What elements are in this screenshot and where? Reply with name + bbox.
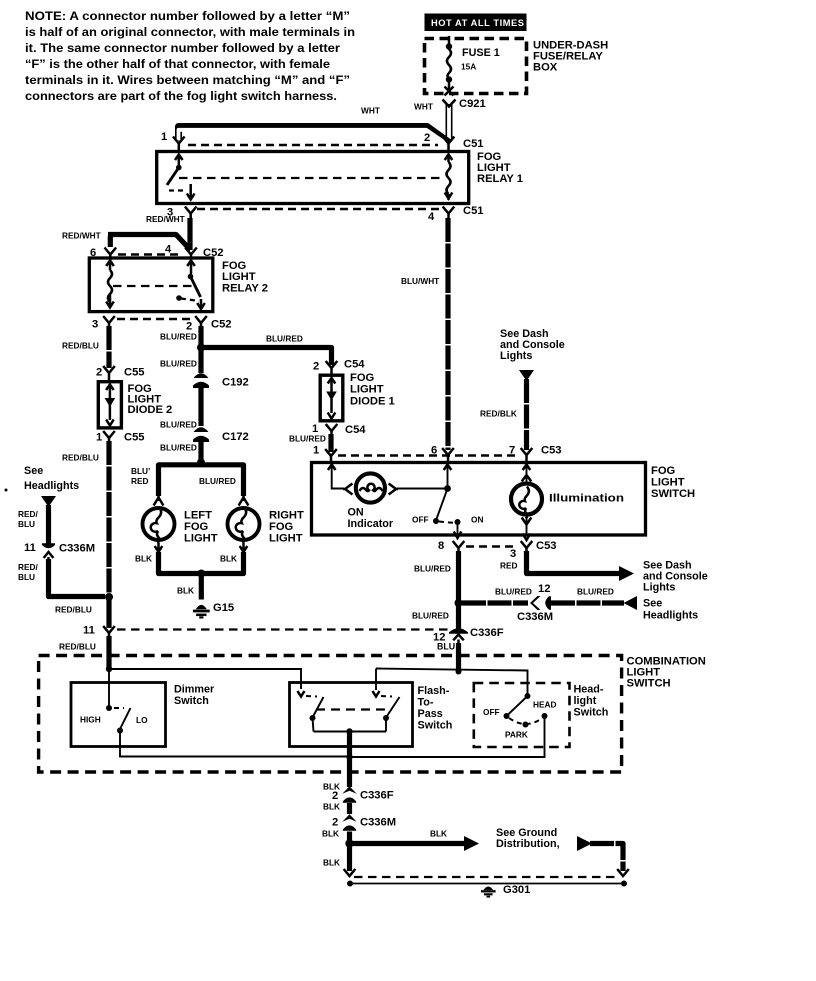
relay K1 coil — [445, 155, 453, 201]
node J9 12BLU tap — [456, 669, 462, 675]
wire RED/BLU from see headlights — [18, 505, 49, 544]
switch S1 blade OFF/ON — [412, 489, 483, 539]
svg-text:2: 2 — [424, 132, 430, 144]
wire BLK C336M-2 to ground node — [322, 829, 350, 843]
right fog light E2 — [228, 507, 304, 545]
svg-text:NOTE: A connector number follo: NOTE: A connector number followed by a l… — [25, 9, 350, 23]
svg-text:LEFT: LEFT — [184, 510, 212, 522]
diode D2 box — [98, 382, 172, 428]
diode D2 symbol — [105, 385, 116, 426]
svg-text:RELAY 2: RELAY 2 — [222, 283, 268, 295]
svg-text:BLK: BLK — [177, 586, 194, 596]
svg-text:See: See — [643, 598, 662, 610]
svg-text:BLU/WHT: BLU/WHT — [401, 276, 439, 286]
connector C52 pin 2 — [186, 316, 232, 333]
combination light switch box — [39, 656, 706, 773]
svg-text:WHT: WHT — [361, 106, 380, 116]
flash-to-pass left pole — [298, 691, 324, 732]
svg-text:C51: C51 — [463, 205, 484, 217]
relay K2 middle dashed link — [113, 285, 193, 287]
wire flash-to-pass feed line — [376, 669, 528, 695]
wire RED/WHT relay1 pin3 down — [187, 218, 192, 250]
wire WHT from C921 down — [446, 104, 453, 140]
connector line C51 top — [188, 144, 438, 147]
connector C336M pin 2 — [332, 814, 396, 831]
svg-text:BLU/RED: BLU/RED — [199, 476, 236, 486]
svg-text:2: 2 — [332, 817, 338, 829]
svg-text:Pass: Pass — [418, 708, 443, 720]
svg-text:DIODE 2: DIODE 2 — [128, 404, 173, 416]
svg-text:To-: To- — [418, 697, 434, 709]
fuse F1 15A — [445, 36, 500, 96]
svg-text:FOG: FOG — [350, 372, 375, 384]
svg-text:C52: C52 — [211, 319, 232, 331]
svg-text:Lights: Lights — [643, 582, 675, 594]
svg-text:LIGHT: LIGHT — [222, 271, 256, 283]
see dash and console lights (top) off-page arrow — [500, 328, 565, 381]
svg-text:G301: G301 — [503, 884, 530, 896]
svg-text:BLU/RED: BLU/RED — [160, 359, 197, 369]
svg-text:2: 2 — [96, 367, 102, 379]
svg-text:BLU: BLU — [18, 519, 35, 529]
connector line C53 bottom — [466, 545, 518, 548]
ground bus G301 — [347, 881, 627, 887]
svg-text:HOT AT ALL TIMES: HOT AT ALL TIMES — [431, 18, 525, 28]
svg-text:BLU/RED: BLU/RED — [412, 611, 449, 621]
relay K1 box — [157, 151, 523, 204]
svg-text:BLU’: BLU’ — [131, 466, 150, 476]
svg-text:2: 2 — [332, 790, 338, 802]
svg-text:BLU/RED: BLU/RED — [495, 587, 532, 597]
svg-text:BLK: BLK — [135, 554, 152, 564]
svg-text:is half of an original connect: is half of an original connector, with m… — [25, 25, 355, 39]
svg-text:RED: RED — [131, 476, 149, 486]
svg-text:BLU/RED: BLU/RED — [160, 332, 197, 342]
svg-text:G15: G15 — [213, 602, 234, 614]
svg-text:15A: 15A — [461, 62, 476, 72]
node J1 — [197, 344, 205, 352]
svg-text:C336M: C336M — [517, 611, 553, 623]
under-dash fuse/relay box — [425, 39, 609, 94]
diode D1 symbol — [326, 378, 337, 419]
svg-text:Switch: Switch — [418, 720, 453, 732]
headlight switch contacts — [483, 693, 557, 740]
svg-text:HEAD: HEAD — [533, 700, 557, 710]
svg-text:OFF: OFF — [483, 707, 500, 717]
svg-text:BLU/RED: BLU/RED — [160, 420, 197, 430]
svg-text:Distribution,: Distribution, — [496, 838, 560, 850]
wire RED/BLU C336M pin11 down — [18, 559, 105, 597]
svg-text:C54: C54 — [345, 424, 366, 436]
wire BLU/RED branch to C54 — [204, 334, 332, 366]
svg-text:LIGHT: LIGHT — [350, 384, 384, 396]
svg-text:2: 2 — [313, 361, 319, 373]
svg-text:BLU: BLU — [18, 572, 35, 582]
svg-text:C336M: C336M — [360, 817, 396, 829]
svg-text:RED/BLU: RED/BLU — [55, 605, 92, 615]
flash-to-pass common bar — [314, 731, 387, 733]
connector C53 pin 3 — [510, 540, 557, 560]
fog light switch S1 box — [312, 463, 696, 536]
left fog light E1 — [143, 507, 218, 545]
wire RED/BLU pin 11 into switch — [59, 636, 109, 668]
svg-text:C172: C172 — [222, 431, 249, 443]
switch S1 pin6 lead — [444, 465, 452, 489]
svg-text:BLK: BLK — [322, 829, 339, 839]
wire HEAD output — [350, 716, 545, 757]
ground G301 — [481, 884, 530, 897]
connector C53 pin 8 — [438, 540, 464, 554]
svg-text:BLK: BLK — [323, 858, 340, 868]
svg-text:RELAY 1: RELAY 1 — [477, 173, 523, 185]
wire BLU/RED to see headlights (right) — [462, 583, 550, 603]
svg-text:BLK: BLK — [430, 829, 447, 839]
diode D1 box — [320, 372, 395, 421]
svg-text:RED/: RED/ — [18, 509, 39, 519]
svg-text:FOG: FOG — [269, 521, 294, 533]
wire RED/BLU C52-3 to C55-2 — [62, 326, 109, 368]
left fog light ground lead BLK — [135, 543, 199, 574]
connector C336F pin 12 — [433, 627, 504, 652]
node J6 — [455, 599, 463, 607]
node J8 — [346, 728, 352, 734]
svg-text:BOX: BOX — [533, 62, 558, 74]
svg-text:11: 11 — [24, 542, 36, 554]
ground G15 — [193, 602, 234, 617]
right fog light ground lead BLK — [204, 543, 247, 574]
wire BLU C336F-12 into combination switch — [456, 643, 461, 672]
connector C51 pin 1 — [161, 131, 185, 151]
svg-text:“F” is the other half of that: “F” is the other half of that connector,… — [25, 57, 330, 71]
dimmer switch box — [71, 683, 215, 747]
svg-text:BLU/RED: BLU/RED — [289, 434, 326, 444]
wire RED/BLU to pin 11 — [55, 599, 109, 628]
relay K2 coil — [106, 261, 114, 308]
wire RED/BLK to switch pin 7 — [480, 379, 527, 450]
svg-text:Headlights: Headlights — [24, 480, 79, 492]
wire BLK C336F-2 to C336M-2 — [323, 802, 350, 815]
svg-text:LIGHT: LIGHT — [184, 533, 218, 545]
svg-text:C336F: C336F — [470, 627, 504, 639]
wire RED/BLU C55-1 down — [62, 441, 109, 597]
svg-text:FOG: FOG — [184, 521, 209, 533]
connector C52 pin 4 — [165, 244, 224, 261]
node J2 — [197, 459, 205, 467]
svg-text:BLU/RED: BLU/RED — [266, 334, 303, 344]
svg-text:RIGHT: RIGHT — [269, 510, 304, 522]
svg-text:RED/BLU: RED/BLU — [59, 642, 96, 652]
svg-text:LO: LO — [136, 715, 148, 725]
svg-text:C51: C51 — [463, 138, 484, 150]
svg-text:light: light — [574, 695, 597, 707]
svg-text:11: 11 — [83, 625, 95, 637]
wire BLK flash common down — [323, 732, 350, 792]
svg-text:C336M: C336M — [59, 543, 95, 555]
svg-text:SWITCH: SWITCH — [651, 488, 695, 500]
note text block — [25, 9, 355, 103]
connector C172 — [160, 420, 249, 444]
svg-text:3: 3 — [92, 319, 98, 331]
svg-text:4: 4 — [428, 211, 435, 223]
connector C336M pin 12 — [517, 596, 553, 623]
illumination lamp — [511, 465, 624, 541]
svg-text:12: 12 — [538, 583, 550, 595]
svg-text:1: 1 — [96, 432, 102, 444]
connector C54 pin 2 — [313, 359, 365, 375]
node J11 — [345, 839, 353, 847]
svg-text:BLU/RED: BLU/RED — [160, 443, 197, 453]
svg-text:HIGH: HIGH — [80, 715, 101, 725]
svg-text:LIGHT: LIGHT — [651, 477, 685, 489]
wire dimmer LO output — [120, 731, 347, 757]
wire BLU/WHT relay1 pin4 to switch pin 6 — [401, 218, 448, 450]
connector C51 pin 2 — [424, 132, 484, 151]
connector C54 pin 1 — [312, 423, 366, 437]
svg-text:BLK: BLK — [323, 802, 340, 812]
connector C53 pin 6 — [431, 445, 454, 462]
svg-text:ON: ON — [471, 515, 483, 525]
svg-text:PARK: PARK — [505, 730, 528, 740]
connector C55 pin 1 — [96, 431, 145, 444]
svg-text:FUSE 1: FUSE 1 — [462, 47, 500, 59]
switch S1 pin1 lead — [328, 465, 344, 489]
svg-text:C55: C55 — [124, 432, 145, 444]
node J5 — [444, 485, 451, 492]
svg-text:RED/BLU: RED/BLU — [62, 453, 99, 463]
wire BLK to see ground distribution — [352, 827, 560, 851]
connector C52 pin 6 — [90, 247, 116, 260]
svg-text:OFF: OFF — [412, 515, 429, 525]
connector line C52 bottom — [117, 318, 194, 321]
svg-text:Switch: Switch — [174, 695, 209, 707]
svg-text:BLK: BLK — [220, 554, 237, 564]
svg-text:BLU/RED: BLU/RED — [577, 587, 614, 597]
wire lamp to pin6 node — [397, 488, 448, 490]
node J3 — [197, 570, 205, 578]
wire dimmer feed to flash-to-pass left — [109, 669, 301, 689]
relay K2 box — [89, 258, 268, 312]
ON indicator lamp — [343, 473, 398, 530]
svg-text:Headlights: Headlights — [643, 610, 698, 622]
connector line C51 bottom — [197, 208, 440, 211]
svg-text:WHT: WHT — [414, 102, 433, 112]
wire ground return from distribution — [577, 836, 629, 876]
wire BLK ground node down — [323, 846, 355, 876]
hot at all times banner — [425, 14, 527, 32]
svg-text:C55: C55 — [124, 367, 145, 379]
svg-text:C54: C54 — [344, 359, 365, 371]
svg-text:See: See — [24, 465, 43, 477]
connector C53 pin 7 — [509, 445, 562, 462]
left fog light arrow — [154, 493, 164, 506]
svg-text:it. The same connector number: it. The same connector number followed b… — [25, 41, 340, 55]
connector C52 pin 3 — [92, 316, 115, 331]
wire BLU/RED switch pin 8 down — [412, 551, 459, 629]
svg-text:SWITCH: SWITCH — [627, 678, 671, 690]
connector C336F pin 2 — [332, 786, 394, 803]
dimmer switch contacts — [80, 669, 148, 734]
svg-text:terminals in it. Wires between: terminals in it. Wires between matching … — [25, 73, 350, 87]
node J4 — [105, 593, 113, 601]
connector C53 pin 1 — [313, 445, 337, 463]
connector C336F pin 11 — [83, 625, 115, 640]
connector C55 pin 2 — [96, 366, 145, 380]
see headlights (left) off-page arrow — [24, 465, 79, 507]
connector line C336 — [117, 628, 448, 630]
svg-text:RED/WHT: RED/WHT — [62, 231, 101, 241]
svg-text:Illumination: Illumination — [549, 493, 624, 505]
svg-text:C192: C192 — [222, 377, 249, 389]
headlight switch box — [474, 683, 608, 747]
svg-text:C53: C53 — [536, 540, 557, 552]
wire BLU/RED C52-2 down — [160, 326, 201, 373]
connector C51 pin 4 — [428, 205, 484, 223]
svg-text:8: 8 — [438, 540, 444, 552]
svg-text:LIGHT: LIGHT — [269, 533, 303, 545]
relay K1 middle dashed link — [179, 177, 443, 179]
svg-text:1: 1 — [161, 131, 167, 143]
wire BLU/RED to fog lights — [131, 465, 244, 496]
svg-text:Lights: Lights — [500, 350, 532, 362]
stray speck — [5, 489, 8, 492]
svg-text:Dimmer: Dimmer — [174, 684, 215, 696]
svg-text:BLU: BLU — [437, 642, 455, 652]
connector line C52 top — [118, 253, 183, 256]
svg-text:RED/BLK: RED/BLK — [480, 409, 517, 419]
svg-text:C921: C921 — [459, 98, 486, 110]
svg-text:Head-: Head- — [574, 684, 604, 696]
svg-text:1: 1 — [313, 445, 319, 457]
svg-text:3: 3 — [510, 548, 516, 560]
svg-text:RED/: RED/ — [18, 562, 39, 572]
relay K2 switch — [176, 261, 205, 310]
svg-text:DIODE 1: DIODE 1 — [350, 396, 395, 408]
connector line C53 top — [338, 454, 519, 457]
wire RED/WHT jumper to pins 6 and 4 — [62, 231, 191, 251]
flash-to-pass right pole — [373, 669, 400, 732]
connector C336M pin 11 — [24, 542, 95, 561]
svg-text:RED/BLU: RED/BLU — [62, 341, 99, 351]
node J7 dimmer feed — [106, 666, 112, 672]
svg-text:RED: RED — [500, 561, 518, 571]
svg-text:C336F: C336F — [360, 790, 394, 802]
svg-text:connectors are part of the fog: connectors are part of the fog light swi… — [25, 89, 337, 103]
flash-to-pass link dashed — [316, 708, 392, 710]
svg-text:ON: ON — [348, 507, 364, 519]
svg-text:C53: C53 — [541, 445, 562, 457]
connector C51 pin 3 — [146, 207, 197, 225]
wire BLU/RED C54-1 to switch pin 1 — [289, 434, 331, 453]
wire RED to see dash and console lights — [500, 551, 708, 594]
node J10 — [346, 754, 352, 760]
connector line bottom — [354, 876, 618, 878]
svg-text:FOG: FOG — [651, 465, 676, 477]
right fog light arrow — [239, 493, 249, 506]
svg-text:Indicator: Indicator — [348, 518, 394, 530]
wire BLU/RED C172 to node J2 — [160, 441, 201, 463]
svg-text:Switch: Switch — [574, 707, 609, 719]
svg-text:Flash-: Flash- — [418, 685, 450, 697]
connector C192 — [193, 373, 249, 388]
flash-to-pass switch box — [290, 683, 453, 747]
wire BLU/RED C192 to C172 — [198, 387, 203, 426]
wire BLU/RED C336M-12 to arrow — [551, 587, 698, 622]
wire WHT top run to relay pins 1 and 2 — [179, 106, 449, 145]
svg-text:RED/WHT: RED/WHT — [146, 214, 185, 224]
wire BLK to ground G15 — [177, 576, 201, 600]
connector C921 — [414, 98, 486, 112]
svg-text:BLU/RED: BLU/RED — [414, 564, 451, 574]
relay K1 switch — [167, 155, 195, 200]
